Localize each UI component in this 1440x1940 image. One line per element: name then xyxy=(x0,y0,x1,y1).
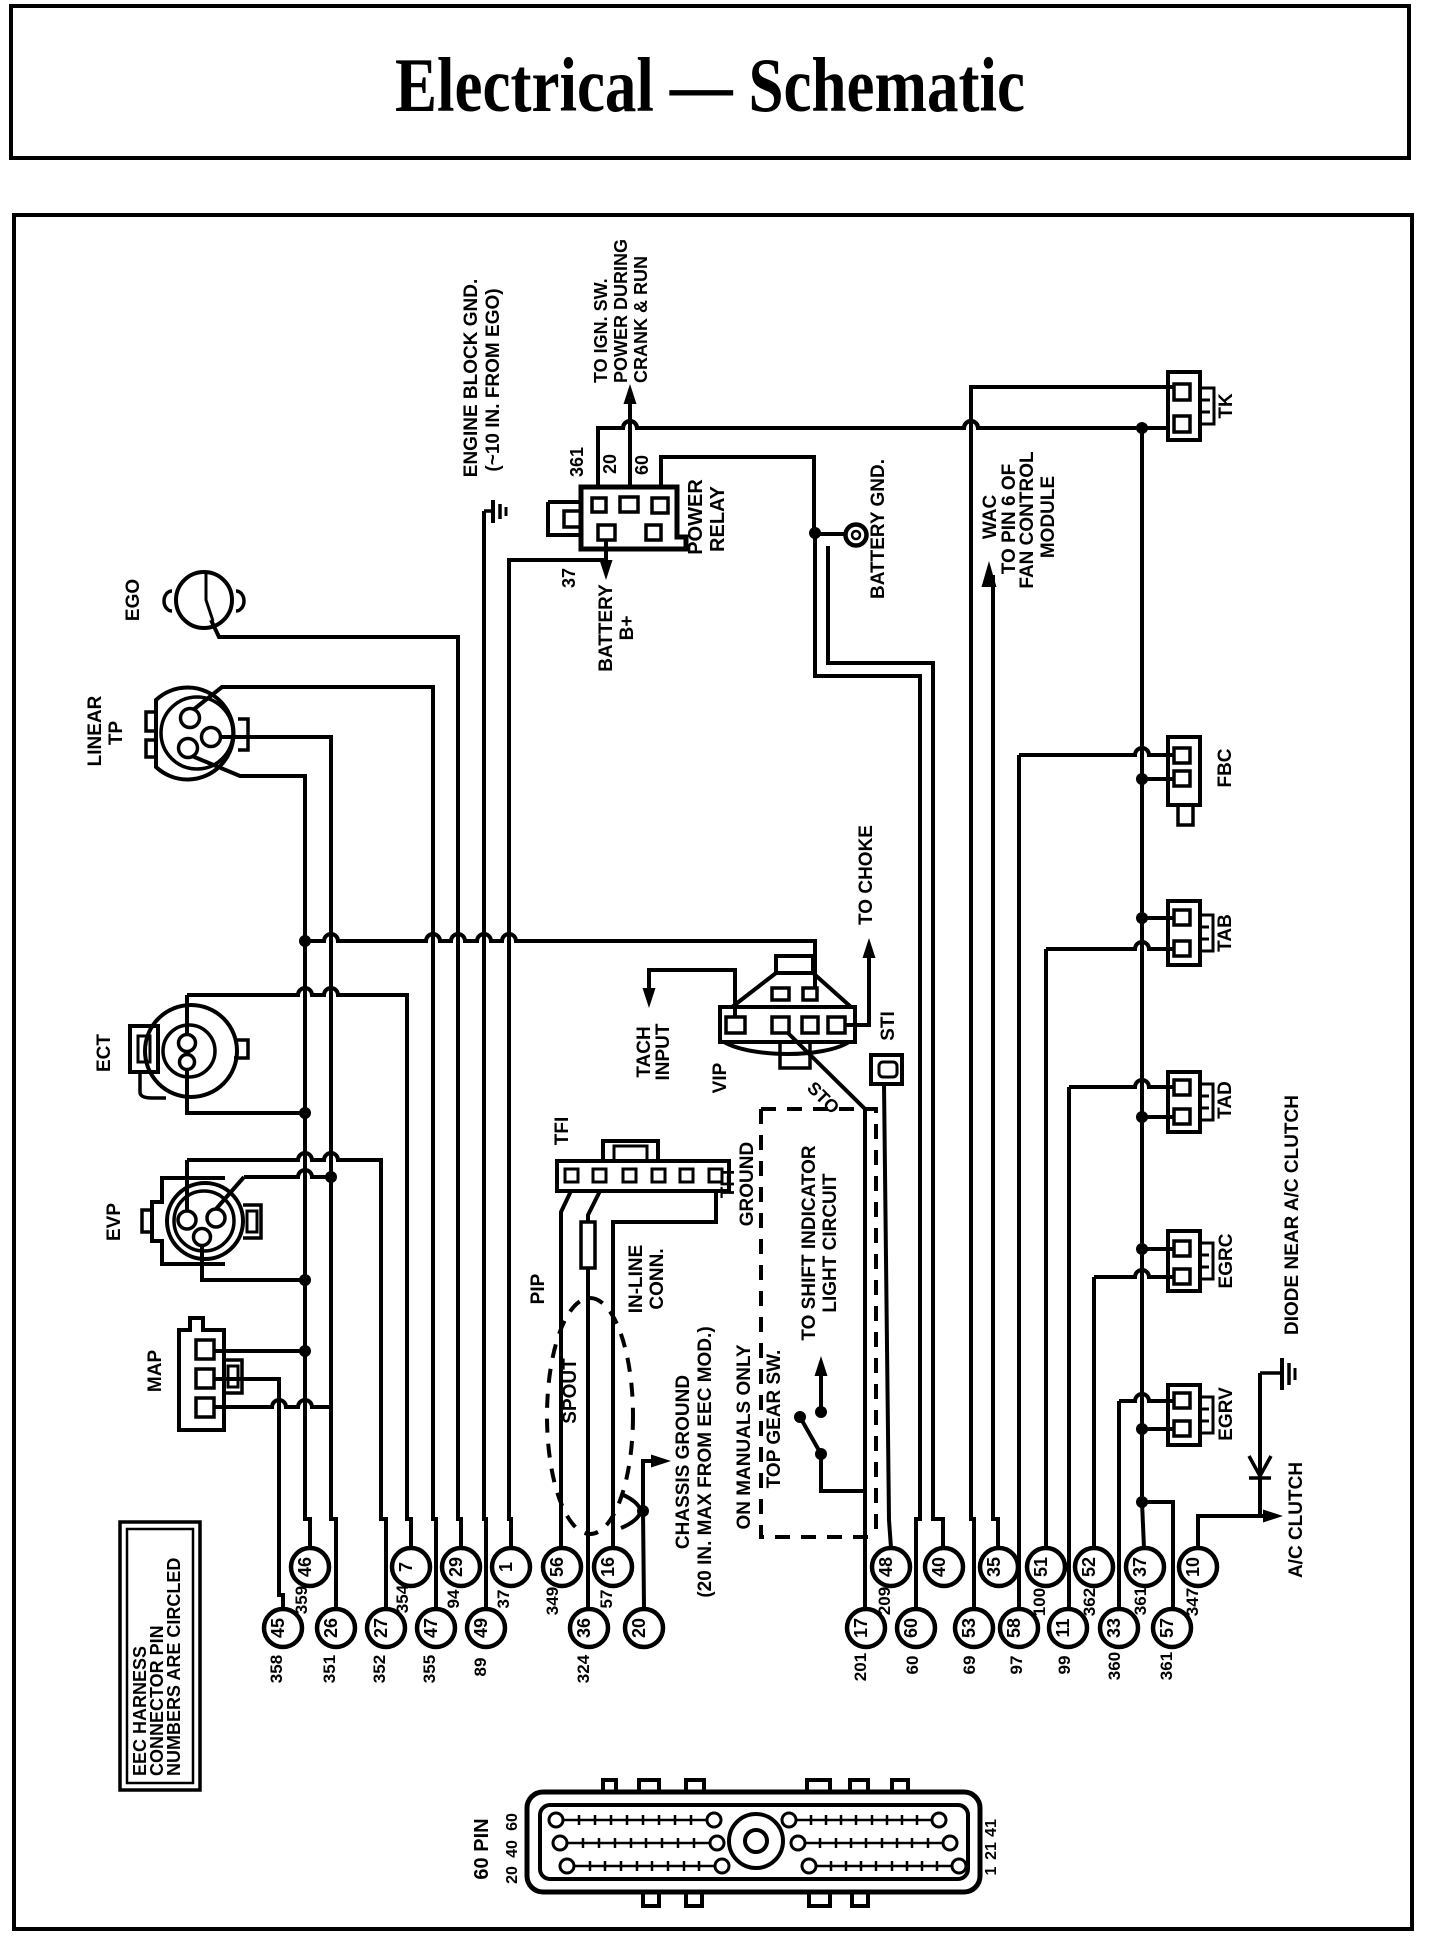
svg-text:45: 45 xyxy=(268,1618,288,1638)
connector TAB xyxy=(1168,901,1200,965)
wire ECT upper pin to pin 7 xyxy=(187,988,411,1548)
connector pin row xyxy=(805,1838,943,1848)
EEC connector pin 37 xyxy=(1126,1548,1164,1586)
svg-text:48: 48 xyxy=(876,1557,896,1577)
EEC connector pin 45 xyxy=(264,1609,302,1647)
svg-text:94: 94 xyxy=(444,1589,463,1608)
svg-text:361: 361 xyxy=(567,447,587,477)
wire STO to pin 17 xyxy=(788,1033,865,1609)
wire TAB lower pin to pin 51 xyxy=(1046,942,1174,1548)
svg-text:SPOUT: SPOUT xyxy=(560,1358,581,1424)
svg-text:201: 201 xyxy=(851,1653,870,1681)
wire TAD upper pin to pin 11 xyxy=(1069,1080,1174,1609)
connector TFI xyxy=(557,1161,729,1191)
svg-text:1: 1 xyxy=(496,1562,516,1572)
svg-text:VIP: VIP xyxy=(710,1062,731,1093)
connector top tab xyxy=(850,1780,868,1794)
wire EGO to pin 29 xyxy=(211,620,461,1548)
EEC connector pin 7 xyxy=(392,1548,430,1586)
svg-text:21: 21 xyxy=(983,1842,1000,1860)
connector top tab xyxy=(603,1780,616,1794)
svg-text:TO SHIFT INDICATOR: TO SHIFT INDICATOR xyxy=(799,1145,820,1341)
connector top tab xyxy=(639,1780,659,1794)
connector pin row xyxy=(574,1861,715,1871)
svg-text:69: 69 xyxy=(960,1656,979,1675)
svg-text:CONN.: CONN. xyxy=(647,1248,668,1309)
wire branch to pin 57 xyxy=(1142,1502,1173,1609)
wire power ground A to pin 60 xyxy=(815,533,920,1609)
node EVP SIG RTN junction xyxy=(299,1274,311,1286)
svg-text:324: 324 xyxy=(574,1654,593,1683)
svg-text:99: 99 xyxy=(1055,1656,1074,1675)
wire BATTERY B+ to pin 1 xyxy=(509,560,606,1548)
svg-text:IN-LINE: IN-LINE xyxy=(626,1245,647,1314)
connector pin row xyxy=(816,1861,952,1871)
svg-text:56: 56 xyxy=(547,1557,567,1577)
wire power ground B to pin 40 xyxy=(828,546,943,1548)
wire ECT lower pin to SIG RTN xyxy=(187,1069,305,1113)
wire MAP pin1 to SIG RTN xyxy=(214,1349,305,1353)
sensor EGO xyxy=(176,572,232,628)
title box xyxy=(11,6,1409,158)
wire MAP pin2 to pin 45 xyxy=(214,1379,283,1609)
svg-text:16: 16 xyxy=(598,1557,618,1577)
wire TP pin2 VREF to pin 26 xyxy=(220,737,336,1609)
svg-text:WAC: WAC xyxy=(980,495,1001,540)
EEC connector pin 27 xyxy=(367,1609,405,1647)
wire TP pin3 SIG RTN xyxy=(192,756,305,941)
node chassis ground splice xyxy=(637,1505,649,1517)
svg-text:NUMBERS ARE CIRCLED: NUMBERS ARE CIRCLED xyxy=(164,1558,184,1776)
wire TP pin1 to pin 47 xyxy=(193,687,436,1609)
dashed in-line connector ellipse xyxy=(547,1298,633,1534)
svg-text:TAD: TAD xyxy=(1215,1081,1236,1119)
svg-text:TFI: TFI xyxy=(718,1170,739,1199)
EEC connector pin 57 xyxy=(1153,1609,1191,1647)
connector top tab xyxy=(807,1780,830,1794)
svg-text:349: 349 xyxy=(543,1587,562,1615)
svg-text:11: 11 xyxy=(1053,1618,1073,1637)
wire WAC to pin 35 xyxy=(993,575,998,1548)
connector TK xyxy=(1168,372,1200,440)
connector EGRV xyxy=(1168,1385,1200,1445)
EEC connector pin 16 xyxy=(594,1548,632,1586)
connector TAD xyxy=(1168,1072,1200,1132)
svg-text:36: 36 xyxy=(574,1618,594,1638)
EEC connector pin 58 xyxy=(1000,1609,1038,1647)
sensor MAP xyxy=(179,1318,224,1430)
sensor LINEAR TP xyxy=(156,688,234,780)
EEC connector pin 36 xyxy=(570,1609,608,1647)
wire relay pin 60 to battery ground xyxy=(661,457,814,533)
svg-text:358: 358 xyxy=(267,1655,286,1683)
svg-text:89: 89 xyxy=(471,1658,490,1677)
EEC connector pin 1 xyxy=(492,1548,530,1586)
svg-text:A/C CLUTCH: A/C CLUTCH xyxy=(1286,1462,1307,1578)
connector top tab xyxy=(686,1780,704,1794)
wire engine block gnd to pin 49 xyxy=(484,511,486,1609)
in-line connector on SPOUT xyxy=(588,1191,600,1222)
svg-text:PIP: PIP xyxy=(528,1273,549,1304)
svg-text:ON MANUALS ONLY: ON MANUALS ONLY xyxy=(734,1344,755,1529)
svg-text:(20 IN. MAX FROM EEC MOD.): (20 IN. MAX FROM EEC MOD.) xyxy=(695,1326,716,1597)
switch arrow to shift indicator xyxy=(815,1406,827,1418)
wire EVP right pin to VREF xyxy=(216,1177,244,1209)
EEC connector pin 60 xyxy=(897,1609,935,1647)
EEC connector pin 56 xyxy=(543,1548,581,1586)
connector pin row xyxy=(567,1838,710,1848)
connector bolt hole xyxy=(729,1814,783,1868)
svg-text:47: 47 xyxy=(421,1618,441,1638)
svg-text:35: 35 xyxy=(984,1557,1004,1577)
svg-text:40: 40 xyxy=(929,1557,949,1577)
svg-text:ENGINE BLOCK GND.: ENGINE BLOCK GND. xyxy=(461,279,482,477)
svg-text:100: 100 xyxy=(1030,1588,1049,1616)
EEC connector pin 48 xyxy=(872,1548,910,1586)
svg-text:B+: B+ xyxy=(617,616,638,641)
svg-text:POWER: POWER xyxy=(685,479,707,555)
diode near A/C clutch xyxy=(1258,1373,1262,1516)
svg-text:MAP: MAP xyxy=(145,1350,166,1393)
splice on TFI ground xyxy=(621,1494,641,1528)
svg-text:ECT: ECT xyxy=(94,1034,115,1072)
wire EGRC lower pin to pin 52 xyxy=(1094,1270,1174,1548)
svg-text:EGRV: EGRV xyxy=(1216,1387,1237,1441)
svg-text:FAN CONTROL: FAN CONTROL xyxy=(1017,451,1038,589)
EEC connector pin 47 xyxy=(417,1609,455,1647)
wire relay pin 37 battery feed xyxy=(604,540,608,562)
wire EGRC upper pin to trunk xyxy=(1142,1247,1174,1251)
svg-text:57: 57 xyxy=(597,1590,616,1609)
svg-text:29: 29 xyxy=(446,1557,466,1577)
svg-text:POWER DURING: POWER DURING xyxy=(611,239,631,383)
ground ENGINE BLOCK GND xyxy=(484,509,492,513)
ground near diode xyxy=(1260,1371,1280,1375)
svg-text:27: 27 xyxy=(371,1618,391,1638)
wire FBC upper pin to pin 58 xyxy=(1019,748,1174,1609)
wire TAD lower pin to trunk xyxy=(1142,1115,1174,1119)
EEC connector pin 35 xyxy=(980,1548,1018,1586)
svg-text:BATTERY: BATTERY xyxy=(596,584,617,672)
EEC connector pin 17 xyxy=(847,1609,885,1647)
svg-text:TO IGN. SW.: TO IGN. SW. xyxy=(591,278,611,383)
wire EVP left pin to pin 27 xyxy=(185,1160,189,1211)
connector FBC xyxy=(1168,737,1200,805)
connector bottom tab xyxy=(686,1890,702,1906)
wire FBC lower pin to trunk xyxy=(1142,777,1174,781)
node EVP VREF junction xyxy=(325,1171,337,1183)
legend box EEC HARNESS xyxy=(120,1522,200,1790)
svg-text:TOP GEAR SW.: TOP GEAR SW. xyxy=(764,1350,785,1489)
svg-text:CHASSIS GROUND: CHASSIS GROUND xyxy=(673,1375,694,1549)
wire EVP bottom pin to SIG RTN xyxy=(202,1245,305,1280)
svg-text:TACH: TACH xyxy=(634,1026,655,1077)
EEC connector pin 26 xyxy=(317,1609,355,1647)
svg-text:LIGHT CIRCUIT: LIGHT CIRCUIT xyxy=(820,1173,841,1313)
wire pin 10 to A/C clutch xyxy=(1198,1516,1269,1548)
EEC connector pin 20 xyxy=(625,1609,663,1647)
svg-text:361: 361 xyxy=(1131,1587,1150,1615)
svg-text:40: 40 xyxy=(504,1840,521,1858)
wire sensor bus to VIP upper right pin xyxy=(305,934,815,988)
svg-text:97: 97 xyxy=(1007,1656,1026,1675)
wire TFI GROUND to pin 16 xyxy=(613,1191,716,1548)
svg-text:57: 57 xyxy=(1157,1618,1177,1638)
svg-text:TO CHOKE: TO CHOKE xyxy=(856,825,877,925)
svg-text:60: 60 xyxy=(632,455,652,475)
switch TOP GEAR SW xyxy=(794,1411,806,1423)
node trunk split junction xyxy=(1136,1496,1148,1508)
svg-text:46: 46 xyxy=(295,1557,315,1577)
node SIG RTN bus junction xyxy=(299,935,311,947)
svg-text:Electrical — Schematic: Electrical — Schematic xyxy=(395,42,1025,128)
svg-text:DIODE NEAR A/C CLUTCH: DIODE NEAR A/C CLUTCH xyxy=(1282,1095,1303,1335)
svg-text:TFI: TFI xyxy=(552,1117,573,1146)
wire TAB upper pin to trunk xyxy=(1142,916,1174,920)
node TK trunk junction xyxy=(1136,422,1148,434)
wire trunk to pin 37 xyxy=(1142,1502,1144,1548)
EEC connector pin 53 xyxy=(955,1609,993,1647)
svg-text:FBC: FBC xyxy=(1215,748,1236,787)
svg-text:EGRC: EGRC xyxy=(1216,1233,1237,1288)
svg-text:EVP: EVP xyxy=(104,1203,125,1241)
wire relay pin 361 / KAPWR to TK xyxy=(598,421,1168,487)
svg-text:60: 60 xyxy=(901,1618,921,1638)
node ECT SIG RTN junction xyxy=(299,1107,311,1119)
svg-text:52: 52 xyxy=(1079,1557,1099,1577)
EEC 60-pin connector xyxy=(527,1792,980,1892)
EEC connector pin 49 xyxy=(467,1609,505,1647)
wire TK upper pin to pin 53 xyxy=(971,387,1174,1609)
node MAP SIG RTN junction xyxy=(299,1345,311,1357)
svg-text:33: 33 xyxy=(1104,1618,1124,1638)
svg-text:60 PIN: 60 PIN xyxy=(471,1818,493,1879)
wire trunk vertical xyxy=(1140,428,1144,1502)
connector pin row xyxy=(563,1815,707,1825)
svg-text:51: 51 xyxy=(1031,1557,1051,1577)
svg-text:20: 20 xyxy=(629,1618,649,1638)
svg-text:(~10 IN. FROM EGO): (~10 IN. FROM EGO) xyxy=(483,288,504,471)
wire EGRV upper pin to pin 33 xyxy=(1119,1394,1174,1609)
wire MAP pin3 to VREF xyxy=(214,1400,331,1407)
svg-text:37: 37 xyxy=(559,568,579,588)
svg-text:37: 37 xyxy=(494,1590,513,1609)
connector bottom tab xyxy=(852,1890,868,1906)
svg-text:7: 7 xyxy=(396,1562,416,1572)
connector STI xyxy=(871,1055,902,1084)
svg-text:STI: STI xyxy=(878,1011,899,1041)
svg-text:354: 354 xyxy=(393,1584,412,1613)
svg-text:58: 58 xyxy=(1004,1618,1024,1638)
svg-text:26: 26 xyxy=(321,1618,341,1638)
wire SIG RTN vertical to pin 46 xyxy=(305,941,310,1548)
svg-text:359: 359 xyxy=(292,1586,311,1614)
EEC connector pin 46 xyxy=(291,1548,329,1586)
svg-text:TK: TK xyxy=(1216,393,1237,419)
EEC connector pin 29 xyxy=(442,1548,480,1586)
svg-text:37: 37 xyxy=(1130,1557,1150,1577)
wire relay pin 20 to ignition xyxy=(628,398,632,487)
svg-text:60: 60 xyxy=(504,1813,521,1831)
battery ground ring terminal xyxy=(846,525,867,546)
wire STI to pin 48 xyxy=(884,1084,891,1548)
connector EGRC xyxy=(1168,1231,1200,1291)
svg-text:209: 209 xyxy=(875,1587,894,1615)
svg-text:347: 347 xyxy=(1183,1588,1202,1616)
EEC connector pin 11 xyxy=(1049,1609,1087,1647)
svg-text:CRANK & RUN: CRANK & RUN xyxy=(631,256,651,383)
EEC connector pin 52 xyxy=(1075,1548,1113,1586)
svg-text:20: 20 xyxy=(504,1866,521,1884)
relay POWER RELAY body xyxy=(581,487,686,549)
svg-text:RELAY: RELAY xyxy=(707,485,729,552)
svg-text:20: 20 xyxy=(600,454,620,474)
svg-text:362: 362 xyxy=(1080,1588,1099,1616)
svg-text:TAB: TAB xyxy=(1215,914,1236,952)
wire splice to chassis ground arrow xyxy=(643,1461,658,1511)
svg-text:TP: TP xyxy=(106,721,127,746)
svg-text:EGO: EGO xyxy=(123,579,144,621)
EEC connector pin 33 xyxy=(1100,1609,1138,1647)
connector pin row xyxy=(796,1815,932,1825)
svg-text:MODULE: MODULE xyxy=(1038,476,1059,558)
connector bottom tab xyxy=(643,1890,659,1906)
wire EGRV lower pin to trunk xyxy=(1142,1427,1174,1431)
svg-text:49: 49 xyxy=(471,1618,491,1638)
svg-text:BATTERY GND.: BATTERY GND. xyxy=(868,459,889,599)
sensor ECT xyxy=(145,1005,237,1097)
connector bottom tab xyxy=(809,1890,830,1906)
node battery ground junction xyxy=(818,532,845,536)
svg-text:INPUT: INPUT xyxy=(653,1023,674,1080)
svg-text:LINEAR: LINEAR xyxy=(85,695,106,766)
wire TACH INPUT to VIP xyxy=(649,970,735,1017)
EEC connector pin 51 xyxy=(1027,1548,1065,1586)
svg-text:17: 17 xyxy=(851,1618,871,1638)
svg-text:10: 10 xyxy=(1183,1557,1203,1577)
svg-text:53: 53 xyxy=(959,1618,979,1638)
EEC connector pin 40 xyxy=(925,1548,963,1586)
connector VIP xyxy=(720,1007,855,1042)
svg-text:351: 351 xyxy=(320,1655,339,1683)
svg-text:60: 60 xyxy=(903,1656,922,1675)
dashed box ON MANUALS ONLY xyxy=(761,1109,876,1537)
wire splice to pin 20 xyxy=(643,1511,644,1607)
svg-text:1: 1 xyxy=(983,1866,1000,1875)
svg-text:352: 352 xyxy=(370,1655,389,1683)
sensor EVP xyxy=(152,1178,225,1264)
wire SPOUT to pin 36 xyxy=(586,1268,590,1609)
svg-text:361: 361 xyxy=(1157,1652,1176,1680)
connector top tab xyxy=(892,1780,908,1794)
EEC connector pin 10 xyxy=(1179,1548,1217,1586)
svg-text:41: 41 xyxy=(983,1819,1000,1837)
svg-text:355: 355 xyxy=(420,1655,439,1683)
wire PIP to pin 56 xyxy=(561,1191,571,1548)
svg-text:GROUND: GROUND xyxy=(737,1142,758,1226)
wire VIP to choke xyxy=(845,954,869,1025)
svg-text:360: 360 xyxy=(1105,1652,1124,1680)
